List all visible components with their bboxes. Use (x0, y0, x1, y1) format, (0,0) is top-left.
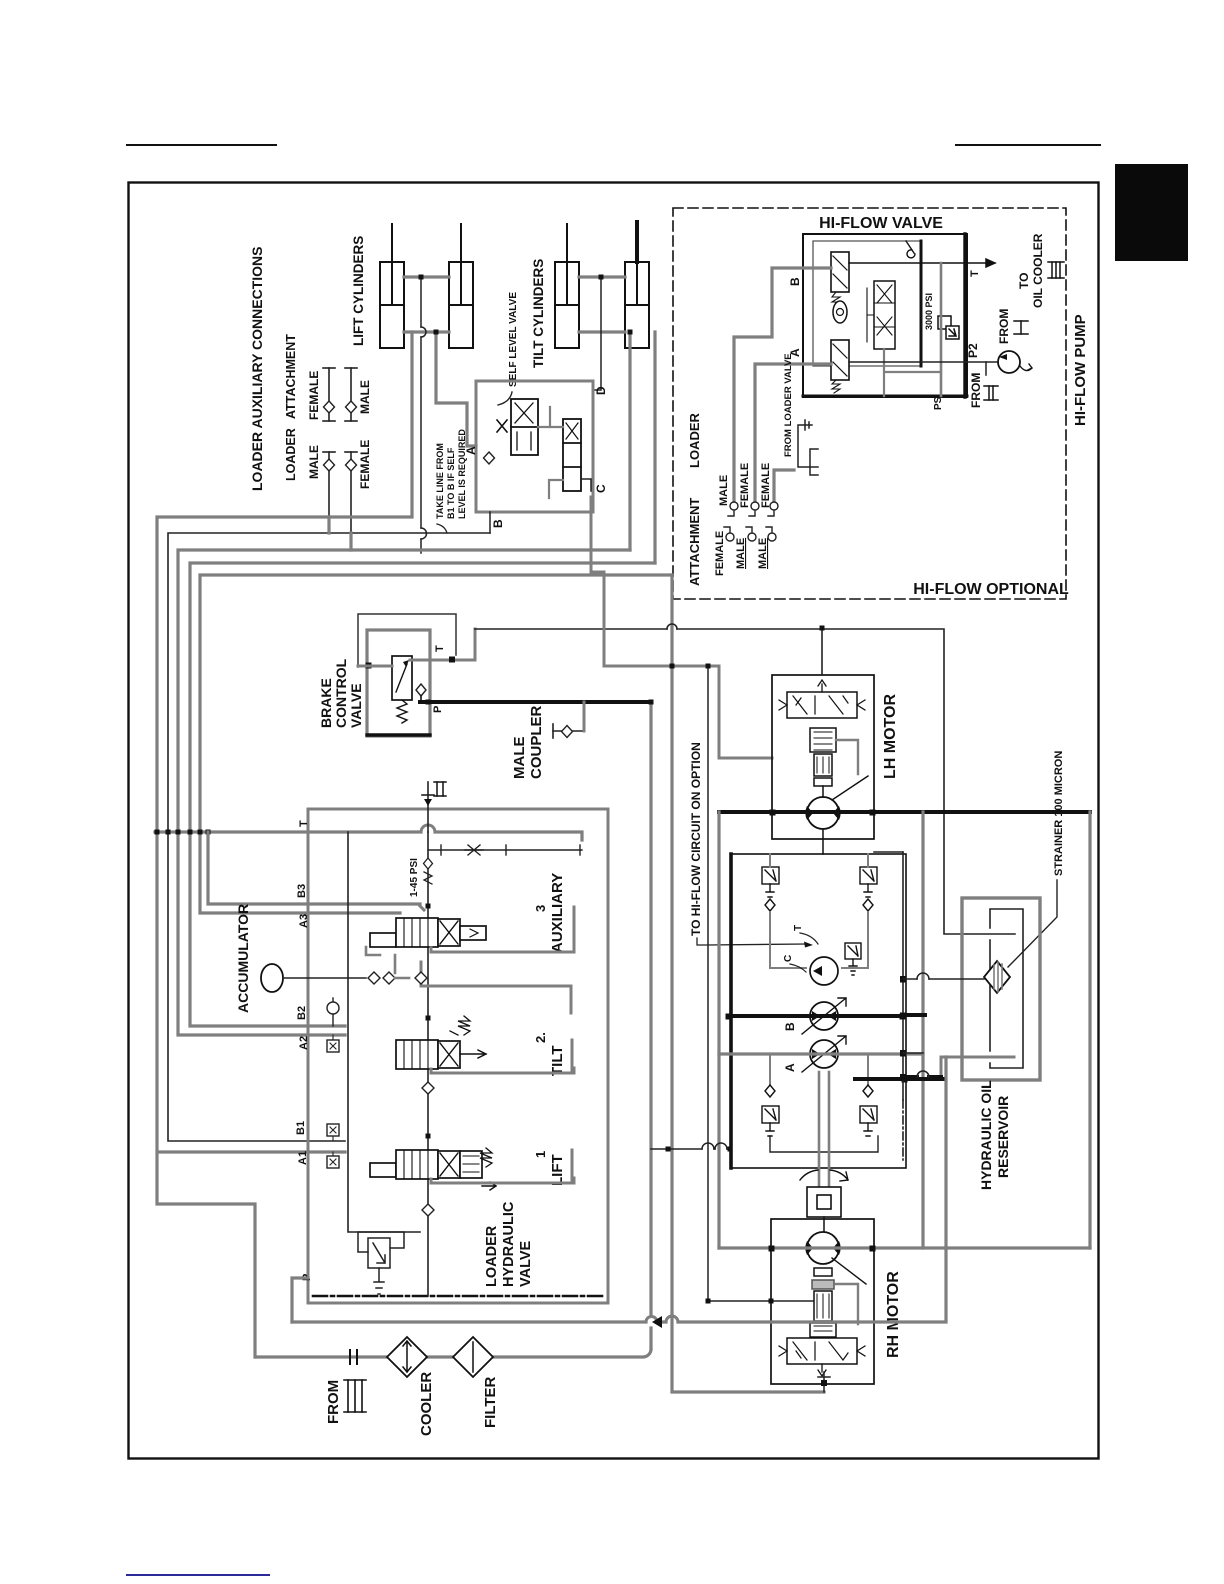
svg-text:OIL COOLER: OIL COOLER (1031, 233, 1045, 308)
wire lift rod-side drop (black) (420, 277, 422, 553)
svg-text:B: B (783, 1022, 797, 1031)
tilt cylinder 2 (rod shown black) (625, 222, 649, 348)
RH motor circle (807, 1232, 839, 1264)
svg-text:3: 3 (533, 905, 548, 912)
LH motor box (772, 675, 874, 839)
node P junction (649, 700, 654, 705)
wire relief to tank line (428, 849, 582, 851)
coupler loader female (345, 452, 357, 533)
wire short legs to B3 A3 (208, 832, 420, 904)
svg-text:FROM: FROM (969, 373, 983, 408)
node aux feed (426, 904, 431, 909)
filter symbol (453, 1337, 493, 1377)
svg-text:TILT CYLINDERS: TILT CYLINDERS (531, 259, 546, 368)
label II (434, 782, 446, 796)
wire hop line into pump left (651, 1148, 731, 1150)
svg-text:C: C (783, 955, 794, 962)
check diamond lift inlet (422, 1082, 434, 1094)
svg-text:FEMALE: FEMALE (358, 440, 372, 489)
drive shaft (819, 1072, 829, 1187)
wire tank bus T (155, 832, 582, 840)
node T port (449, 657, 455, 663)
leader self level valve (498, 392, 512, 405)
brake valve spring (397, 700, 407, 723)
valve enclosure dashed bottom (313, 1295, 603, 1298)
FROM III ticks (350, 1350, 357, 1364)
wire lift bottom ports (404, 330, 449, 333)
charge relief (845, 943, 861, 975)
svg-text:P: P (432, 706, 444, 713)
node lift feed (426, 1134, 431, 1139)
wire accumulator line (283, 977, 366, 979)
svg-text:B: B (491, 519, 505, 528)
svg-text:A2: A2 (298, 1036, 310, 1050)
spool B of hi-flow (831, 252, 849, 306)
inlet relief assembly bottom-left (358, 1232, 404, 1294)
wire FROM II stub (985, 362, 987, 375)
svg-text:A3: A3 (298, 914, 310, 928)
svg-text:LOADER: LOADER (687, 413, 702, 469)
svg-text:B1: B1 (295, 1121, 307, 1135)
wire hi-flow internal T drop (940, 263, 943, 396)
relief top-right (860, 867, 877, 911)
brake valve spool (392, 656, 412, 700)
lift cylinder 1 (380, 224, 404, 348)
svg-text:HI-FLOW VALVE: HI-FLOW VALVE (819, 215, 943, 232)
wire lift section divider (431, 1150, 574, 1183)
node drain junctions (900, 976, 907, 983)
wire trunk P supply (649, 702, 652, 1349)
note TAKE LINE FROM B1 TO B IF SELF LEVEL IS REQUIRED (435, 429, 467, 519)
wire return into reservoir lower (941, 1057, 1014, 1077)
wire lift top ports (404, 275, 449, 278)
svg-text:FROM: FROM (997, 309, 1011, 344)
node LH ports (770, 810, 776, 816)
svg-text:T: T (969, 270, 981, 277)
wire B port drop (489, 512, 491, 533)
wire loader coupler drops (329, 517, 351, 550)
wire spool link (538, 407, 563, 498)
lift cylinder 2 (449, 224, 473, 348)
svg-text:TO: TO (1017, 273, 1031, 289)
svg-text:MALE: MALE (511, 737, 528, 780)
svg-text:RESERVOIR: RESERVOIR (995, 1096, 1011, 1178)
wire suction line to strainer (903, 978, 984, 980)
wire drain link (903, 1052, 923, 1054)
coupler attachment male (345, 368, 357, 421)
wire bus A1 leg (157, 332, 412, 1357)
pump circle 2 (810, 1040, 838, 1068)
svg-text:FEMALE: FEMALE (307, 371, 321, 420)
svg-text:1: 1 (533, 1151, 548, 1158)
wire cooler branch (256, 1349, 651, 1357)
wire tilt bottom to A2 bus (630, 332, 655, 563)
wire LH motor ports (thick) (719, 810, 1090, 814)
svg-text:B2: B2 (296, 1006, 308, 1020)
wire lower relief links (770, 1136, 878, 1152)
node charge junction (670, 664, 675, 669)
svg-text:LIFT: LIFT (549, 1154, 566, 1186)
spool 1 of self level valve (511, 399, 538, 455)
svg-text:HYDRAULIC OIL: HYDRAULIC OIL (978, 1080, 994, 1190)
port II stub (427, 782, 429, 832)
svg-text:FILTER: FILTER (482, 1376, 499, 1428)
spool 2 of self level valve (563, 419, 581, 491)
node lift top port junction (419, 275, 424, 280)
svg-text:STRAINER 100 MICRON: STRAINER 100 MICRON (1053, 751, 1065, 876)
svg-text:COOLER: COOLER (418, 1372, 435, 1436)
svg-text:LOADER: LOADER (284, 428, 298, 481)
strainer element (984, 961, 1010, 993)
svg-text:MALE: MALE (757, 538, 769, 569)
wire tilt section divider (431, 1040, 574, 1073)
wire coupler to P line (583, 702, 586, 731)
spool aux section (370, 918, 486, 947)
wire C port (581, 479, 591, 491)
wire tilt top ports (579, 275, 625, 278)
brake valve pilot frame (358, 614, 456, 667)
wire RH motor ports (719, 1246, 1090, 1249)
wire pump port B (thick) (728, 1014, 903, 1018)
svg-text:TAKE LINE FROM: TAKE LINE FROM (435, 443, 445, 519)
svg-text:B3: B3 (296, 884, 308, 898)
wire bus hiflow leg 1 (190, 563, 655, 1026)
svg-text:HYDRAULIC: HYDRAULIC (501, 1201, 517, 1287)
svg-text:FEMALE: FEMALE (760, 463, 772, 508)
check oval (833, 301, 847, 323)
svg-text:ATTACHMENT: ATTACHMENT (687, 498, 702, 586)
wire bottom drain thick (903, 1075, 941, 1079)
node spool left (366, 663, 372, 669)
node lift bottom port junction (434, 330, 439, 335)
reservoir shell (962, 898, 1040, 1080)
check restrictors on B2 A2 (332, 998, 334, 1026)
label FROM I (997, 309, 1011, 344)
svg-text:FEMALE: FEMALE (714, 531, 726, 576)
RH brake stack (810, 1268, 858, 1337)
wire aux lower loop (421, 962, 571, 1013)
reservoir inner (990, 909, 1023, 1068)
wire brake T port (358, 629, 475, 666)
svg-text:LOADER: LOADER (484, 1225, 500, 1287)
wire charge line to LH motor (591, 497, 772, 758)
wire RH case to bottom (818, 1372, 830, 1392)
svg-text:HI-FLOW PUMP: HI-FLOW PUMP (1072, 314, 1089, 426)
wire LH motor pilot feed (821, 628, 823, 675)
hi-flow pump circle (998, 351, 1020, 373)
svg-text:2.: 2. (533, 1032, 548, 1043)
wire return main (292, 1057, 946, 1322)
shaft coupling (807, 1187, 841, 1217)
wire bus tilt leg (178, 550, 630, 1035)
inner pilot frame (813, 241, 921, 366)
svg-text:BRAKE: BRAKE (318, 678, 334, 728)
self level valve body (476, 381, 593, 512)
wire P inlet (292, 1278, 308, 1322)
charge pump circle (810, 957, 838, 985)
svg-text:HI-FLOW OPTIONAL: HI-FLOW OPTIONAL (913, 581, 1069, 598)
wire brake P port (thick) (420, 700, 651, 704)
wire third hose to bracket (774, 470, 794, 506)
wire tank gallery (348, 832, 420, 1232)
wire return line top (black) (475, 629, 1015, 934)
wire pump lower cross (thick) (855, 1077, 944, 1081)
pump drain squiggle (1020, 364, 1032, 371)
relief top-left (762, 867, 779, 911)
RH shuttle spool (779, 1338, 865, 1376)
LH displacement arrow (832, 776, 868, 800)
svg-text:1-45 PSI: 1-45 PSI (409, 858, 420, 897)
label BRAKE CONTROL VALVE (318, 658, 364, 728)
wire accumulator link (366, 947, 409, 978)
diagram border frame (129, 183, 1099, 1459)
wire pump port A (719, 1052, 923, 1055)
RH motor box (771, 1219, 874, 1384)
pilot spool center (867, 281, 895, 349)
wire P2 line (849, 361, 999, 363)
node tilt feed (426, 1016, 431, 1021)
leader to hi-flow option (697, 938, 806, 945)
wire hi-flow A hose (755, 364, 831, 506)
wire hi-flow T out (849, 259, 995, 267)
svg-text:P2: P2 (966, 343, 980, 358)
brake valve body (367, 630, 430, 736)
coupler loader male (323, 452, 335, 517)
pump housing (731, 854, 906, 1168)
wire aux section divider (420, 906, 574, 952)
svg-text:AUXILIARY: AUXILIARY (549, 873, 566, 953)
svg-text:T: T (793, 925, 804, 931)
svg-text:MALE: MALE (358, 380, 372, 414)
spool A of hi-flow (831, 340, 849, 393)
svg-text:FEMALE: FEMALE (739, 463, 751, 508)
hi-flow valve body (803, 234, 967, 397)
spool lift section (370, 1150, 482, 1179)
svg-text:ATTACHMENT: ATTACHMENT (284, 334, 298, 419)
relief block right (938, 316, 959, 339)
top-left header rule (127, 144, 276, 146)
valve enclosure (308, 809, 608, 1303)
svg-text:CONTROL: CONTROL (333, 658, 349, 728)
svg-text:FROM: FROM (325, 1380, 342, 1424)
LH motor circle (807, 797, 839, 829)
pilot X mark left of spool (497, 420, 507, 432)
svg-text:TO HI-FLOW CIRCUIT ON OPTION: TO HI-FLOW CIRCUIT ON OPTION (689, 742, 703, 936)
svg-text:D: D (594, 386, 608, 395)
relief bottom-left (762, 1085, 779, 1136)
node tilt bottom junction (628, 330, 633, 335)
RH displacement arrow (832, 1258, 866, 1284)
svg-text:3000 PSI: 3000 PSI (924, 293, 934, 330)
label FROM II (969, 373, 983, 408)
lift spring (480, 1148, 492, 1167)
svg-text:A: A (783, 1063, 797, 1072)
svg-text:TILT: TILT (549, 1045, 566, 1076)
LH shuttle spool (779, 680, 865, 718)
wire case drain trunk (902, 852, 904, 1100)
svg-text:COUPLER: COUPLER (528, 705, 545, 779)
wire tilt top to D port (593, 277, 601, 390)
wire relief tops (770, 854, 868, 1085)
svg-text:MALE: MALE (307, 445, 321, 479)
svg-text:FROM LOADER VALVE: FROM LOADER VALVE (783, 353, 794, 457)
svg-text:RH MOTOR: RH MOTOR (885, 1271, 902, 1358)
label MALE COUPLER (511, 705, 545, 779)
coupler attachment female (323, 368, 335, 421)
cooler symbol (387, 1337, 427, 1377)
svg-text:LEVEL IS REQUIRED: LEVEL IS REQUIRED (457, 429, 467, 519)
relief bottom-right (860, 1085, 877, 1136)
wire brake release line (708, 666, 815, 1301)
wire drain stub thick (903, 1013, 925, 1017)
bottom-left footer rule (blue) (127, 1574, 269, 1576)
flow arrow on return (652, 1316, 662, 1328)
svg-text:LOADER AUXILIARY CONNECTIONS: LOADER AUXILIARY CONNECTIONS (249, 247, 265, 492)
label III (1048, 262, 1064, 278)
check valve diamond inside valve (484, 452, 495, 464)
tilt cylinder 1 (555, 224, 579, 348)
svg-text:VALVE: VALVE (348, 683, 364, 728)
svg-text:ACCUMULATOR: ACCUMULATOR (235, 904, 251, 1013)
bypass check top (906, 241, 915, 258)
svg-text:T: T (434, 645, 446, 652)
wire LH port risers (719, 812, 923, 1248)
wire lift base-side to self level A (436, 332, 476, 446)
wire PS drop (884, 349, 941, 396)
leader of note (437, 524, 447, 533)
black page tab (1115, 164, 1188, 261)
brake valve pilot diamond (416, 684, 426, 696)
node tilt top port junction (599, 275, 604, 280)
node P port (426, 700, 431, 705)
wire case drain link (874, 851, 903, 853)
check diamonds on accumulator line (368, 972, 380, 984)
wire bus hiflow leg 2 (200, 575, 672, 913)
label HYDRAULIC OIL RESERVOIR (978, 1080, 1011, 1190)
svg-text:MALE: MALE (718, 475, 730, 506)
top-right header rule (956, 144, 1100, 146)
svg-text:C: C (594, 484, 608, 493)
label LOADER HYDRAULIC VALVE (484, 1201, 534, 1287)
coupler symbol (553, 730, 584, 732)
svg-text:LIFT CYLINDERS: LIFT CYLINDERS (351, 236, 366, 346)
wire bus B1 leg (black, B1 to B note line) (168, 533, 490, 1141)
relief spring symbol (465, 845, 483, 855)
LH brake valve stack (810, 728, 858, 786)
label TO OIL COOLER (1017, 233, 1045, 308)
node bus junctions on T (155, 830, 160, 835)
tilt spring (450, 1016, 470, 1035)
leader strainer (1008, 880, 1057, 967)
svg-text:A1: A1 (297, 1151, 309, 1165)
svg-text:LH MOTOR: LH MOTOR (882, 694, 899, 779)
pump circle 1 (810, 1002, 838, 1030)
svg-text:VALVE: VALVE (518, 1240, 534, 1287)
bracket couple symbols (798, 420, 818, 475)
wire pressure gallery (427, 832, 429, 1296)
svg-text:SELF LEVEL VALVE: SELF LEVEL VALVE (508, 292, 519, 387)
svg-text:B: B (788, 277, 802, 286)
wire tilt bottom ports (579, 330, 625, 333)
node II arrow (424, 799, 432, 806)
spool tilt section (396, 1040, 460, 1069)
svg-text:MALE: MALE (735, 538, 747, 569)
wire trunk case drain (672, 575, 824, 1392)
svg-text:B1 TO B IF SELF: B1 TO B IF SELF (446, 447, 456, 519)
svg-text:PS: PS (933, 396, 944, 410)
svg-text:T: T (298, 820, 310, 827)
check restrictors on B1 A1 (327, 1124, 339, 1136)
wire hi-flow B hose (734, 268, 831, 506)
